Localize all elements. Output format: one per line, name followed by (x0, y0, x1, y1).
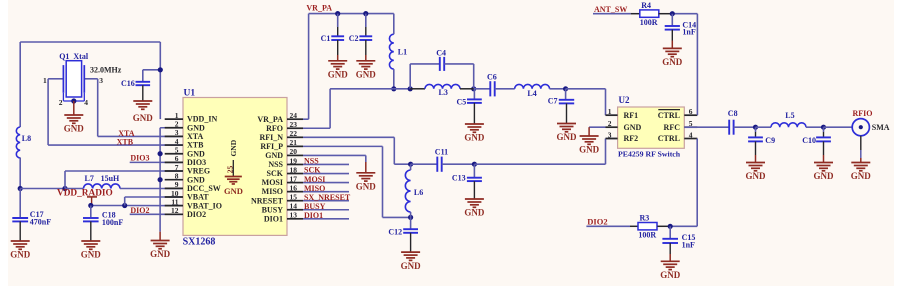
svg-text:GND: GND (81, 250, 102, 260)
svg-text:14: 14 (290, 202, 298, 211)
svg-text:1: 1 (43, 76, 47, 85)
svg-text:SCK: SCK (304, 166, 321, 175)
svg-text:GND: GND (464, 208, 485, 218)
svg-text:GND: GND (64, 124, 85, 134)
svg-text:RF2: RF2 (624, 134, 639, 143)
svg-text:2: 2 (608, 119, 612, 128)
svg-text:L6: L6 (414, 188, 423, 197)
svg-text:6: 6 (175, 154, 179, 163)
svg-text:C16: C16 (121, 79, 135, 88)
svg-text:L5: L5 (785, 111, 794, 120)
svg-text:VDD_RADIO: VDD_RADIO (57, 189, 113, 199)
svg-text:8: 8 (175, 171, 179, 180)
svg-text:RFI_N: RFI_N (259, 133, 283, 142)
svg-text:GND: GND (464, 133, 485, 143)
svg-text:MOSI: MOSI (304, 175, 325, 184)
svg-text:DIO1: DIO1 (264, 214, 283, 223)
svg-text:GND: GND (401, 261, 422, 271)
svg-text:L7: L7 (85, 174, 94, 183)
svg-text:NSS: NSS (304, 157, 319, 166)
svg-text:MISO: MISO (262, 187, 283, 196)
svg-text:GND: GND (557, 132, 578, 142)
svg-text:470nF: 470nF (30, 218, 51, 227)
svg-text:11: 11 (171, 197, 178, 206)
svg-text:NSS: NSS (268, 160, 283, 169)
svg-text:RFO: RFO (266, 124, 283, 133)
svg-text:DIO2: DIO2 (130, 206, 149, 215)
svg-text:12: 12 (171, 206, 179, 215)
svg-text:23: 23 (290, 120, 298, 129)
svg-text:C1: C1 (321, 34, 331, 43)
svg-text:10: 10 (171, 189, 179, 198)
svg-text:13: 13 (290, 211, 298, 220)
svg-text:C12: C12 (388, 228, 402, 237)
svg-text:C5: C5 (457, 97, 467, 106)
svg-text:DIO2: DIO2 (587, 217, 607, 227)
svg-text:15uH: 15uH (101, 174, 120, 183)
svg-text:VDD_IN: VDD_IN (187, 115, 217, 124)
svg-text:GND: GND (662, 57, 683, 67)
svg-text:1: 1 (608, 107, 612, 116)
svg-text:24: 24 (290, 111, 298, 120)
svg-text:SCK: SCK (267, 169, 284, 178)
svg-text:DCC_SW: DCC_SW (187, 184, 221, 193)
svg-text:3: 3 (608, 130, 612, 139)
svg-text:U2: U2 (619, 95, 630, 105)
svg-text:VR_PA: VR_PA (306, 3, 332, 12)
svg-text:7: 7 (175, 163, 179, 172)
svg-text:VBAT: VBAT (187, 193, 209, 202)
svg-text:100R: 100R (640, 18, 658, 27)
svg-text:GND: GND (624, 123, 642, 132)
svg-text:GND: GND (229, 139, 238, 156)
svg-text:9: 9 (175, 180, 179, 189)
svg-text:2: 2 (59, 98, 63, 107)
svg-text:PE4259 RF Switch: PE4259 RF Switch (618, 149, 681, 158)
svg-text:L4: L4 (527, 89, 536, 98)
svg-text:CTRL: CTRL (658, 134, 680, 143)
svg-text:SMA: SMA (872, 123, 890, 132)
svg-text:2: 2 (175, 120, 179, 129)
svg-text:C10: C10 (802, 136, 816, 145)
svg-text:Q1: Q1 (59, 52, 69, 61)
svg-text:L1: L1 (398, 47, 407, 56)
svg-text:C11: C11 (435, 147, 448, 156)
svg-text:6: 6 (689, 107, 693, 116)
svg-text:C2: C2 (349, 34, 359, 43)
svg-text:4: 4 (689, 130, 693, 139)
svg-text:GND: GND (224, 186, 243, 196)
svg-text:GND: GND (356, 70, 377, 80)
svg-text:100nF: 100nF (102, 218, 123, 227)
svg-text:DIO1: DIO1 (304, 211, 323, 220)
svg-text:GND: GND (187, 123, 205, 132)
svg-text:17: 17 (290, 174, 298, 183)
svg-text:GND: GND (356, 182, 377, 192)
svg-text:NRESET: NRESET (251, 196, 284, 205)
svg-text:XTB: XTB (117, 137, 134, 146)
svg-text:1nF: 1nF (682, 27, 695, 36)
svg-text:GND: GND (187, 149, 205, 158)
svg-text:GND: GND (660, 270, 681, 280)
svg-text:RFC: RFC (664, 123, 681, 132)
svg-text:22: 22 (290, 129, 298, 138)
svg-text:1nF: 1nF (682, 240, 695, 249)
svg-text:XTB: XTB (187, 141, 204, 150)
svg-text:C9: C9 (765, 136, 775, 145)
svg-text:19: 19 (290, 156, 298, 165)
svg-text:R4: R4 (641, 1, 651, 10)
svg-text:3: 3 (99, 76, 103, 85)
svg-text:MISO: MISO (304, 184, 325, 193)
svg-text:L3: L3 (439, 88, 448, 97)
svg-text:C6: C6 (487, 72, 497, 81)
svg-text:SX_NRESET: SX_NRESET (304, 193, 351, 202)
svg-text:15: 15 (290, 192, 298, 201)
svg-text:GND: GND (814, 171, 835, 181)
svg-text:R3: R3 (640, 213, 650, 222)
svg-text:GND: GND (133, 113, 154, 123)
svg-text:RF1: RF1 (624, 111, 639, 120)
svg-text:VREG: VREG (187, 167, 210, 176)
svg-text:5: 5 (175, 146, 179, 155)
svg-text:RFI_P: RFI_P (260, 142, 283, 151)
svg-text:SX1268: SX1268 (183, 236, 216, 247)
svg-text:C13: C13 (452, 174, 466, 183)
svg-text:GND: GND (851, 171, 872, 181)
svg-text:4: 4 (84, 98, 88, 107)
svg-text:C8: C8 (728, 109, 738, 118)
svg-text:32.0MHz: 32.0MHz (90, 66, 122, 75)
svg-text:100R: 100R (638, 231, 656, 240)
svg-text:GND: GND (328, 70, 349, 80)
svg-text:ANT_SW: ANT_SW (594, 5, 627, 14)
svg-text:VBAT_IO: VBAT_IO (187, 201, 222, 210)
svg-text:21: 21 (290, 138, 298, 147)
svg-text:MOSI: MOSI (262, 178, 283, 187)
svg-text:BUSY: BUSY (262, 205, 284, 214)
svg-text:DIO3: DIO3 (187, 158, 206, 167)
svg-text:XTA: XTA (187, 132, 204, 141)
svg-text:GND: GND (150, 249, 171, 259)
svg-text:1: 1 (175, 111, 179, 120)
svg-text:C7: C7 (548, 96, 558, 105)
svg-text:3: 3 (175, 128, 179, 137)
svg-text:BUSY: BUSY (304, 202, 326, 211)
svg-text:DIO2: DIO2 (187, 210, 206, 219)
svg-text:16: 16 (290, 183, 298, 192)
svg-text:GND: GND (579, 145, 600, 155)
svg-text:20: 20 (290, 147, 298, 156)
svg-text:GND: GND (10, 250, 31, 260)
svg-text:4: 4 (175, 137, 179, 146)
svg-text:U1: U1 (184, 89, 196, 99)
svg-text:CTRL: CTRL (658, 111, 680, 120)
svg-text:DIO3: DIO3 (130, 154, 149, 163)
svg-text:Xtal: Xtal (73, 52, 88, 61)
svg-text:GND: GND (265, 151, 283, 160)
svg-text:GND: GND (746, 171, 767, 181)
svg-text:GND: GND (187, 175, 205, 184)
svg-text:L8: L8 (22, 134, 31, 143)
svg-text:VR_PA: VR_PA (257, 115, 283, 124)
svg-text:18: 18 (290, 165, 298, 174)
svg-text:RFIO: RFIO (853, 109, 873, 118)
svg-text:C4: C4 (436, 48, 446, 57)
